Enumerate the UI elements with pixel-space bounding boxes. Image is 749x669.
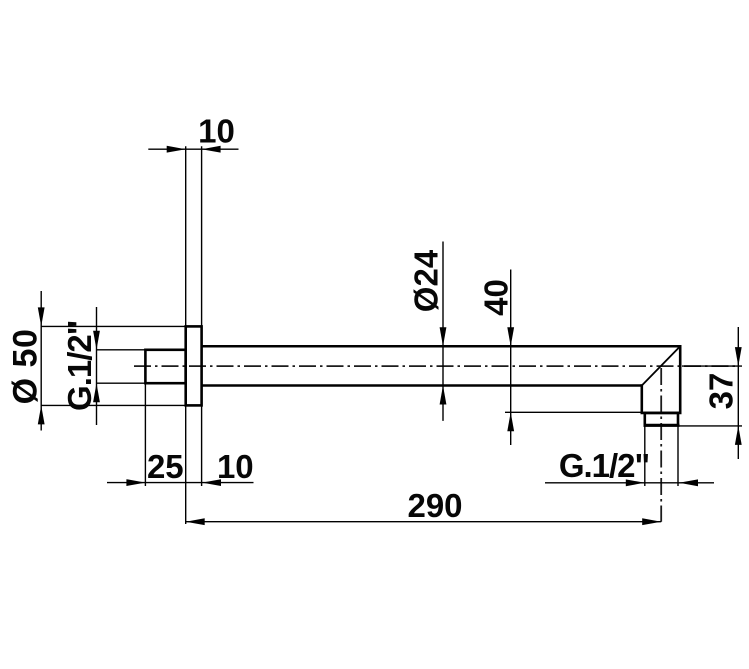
svg-text:37: 37 — [703, 373, 740, 410]
arm tube bottom edge — [202, 384, 642, 387]
dimension G.1/2 inch (outlet thread, bottom right) — [545, 425, 714, 486]
threaded inlet nipple — [145, 350, 185, 383]
dimension 290 (arm length, bottom) — [186, 521, 662, 523]
dimension 37 (outlet drop, right) — [679, 327, 742, 459]
elbow miter diagonal — [642, 346, 680, 385]
outlet collar — [645, 413, 678, 425]
extension line for 40 at elbow bottom — [505, 411, 642, 413]
center line horizontal (tube axis) — [134, 365, 738, 367]
svg-text:G.1/2": G.1/2" — [61, 321, 98, 411]
outlet collar bottom thick edge — [644, 424, 680, 427]
elbow right edge — [679, 345, 682, 413]
wall flange plate — [186, 326, 202, 405]
elbow drop bottom edge — [641, 412, 682, 415]
svg-text:Ø24: Ø24 — [408, 249, 445, 312]
svg-text:40: 40 — [478, 279, 515, 316]
svg-text:Ø 50: Ø 50 — [7, 329, 45, 405]
svg-text:10: 10 — [198, 113, 235, 150]
dimension G.1/2 inch (inlet thread, left) — [97, 307, 146, 425]
svg-text:G.1/2": G.1/2" — [559, 447, 649, 484]
dimensions 25 and 10 (bottom left chain) — [107, 383, 254, 524]
arm tube top edge — [202, 345, 681, 348]
elbow drop left edge — [640, 384, 643, 413]
svg-text:10: 10 — [217, 448, 254, 485]
svg-text:290: 290 — [407, 487, 462, 524]
center line vertical (outlet axis) — [660, 368, 662, 522]
dimension 40 (elbow depth) — [510, 270, 512, 446]
dimension O50 (flange diameter, left) — [41, 291, 186, 431]
svg-text:25: 25 — [147, 448, 184, 485]
dimension O24 (tube diameter) — [442, 242, 444, 421]
dimension 10 (flange thickness, top) — [148, 146, 238, 326]
